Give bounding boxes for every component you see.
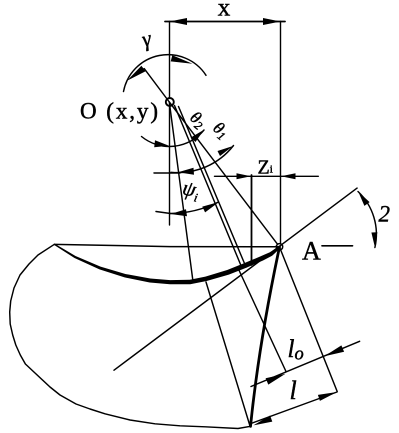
z_i dimension line	[215, 175, 319, 177]
psi tick	[156, 212, 171, 214]
line O to A	[169, 102, 279, 247]
angle 2 arrow bottom	[371, 232, 377, 247]
soil surface horizontal line through A (left part)	[54, 244, 280, 246]
svg-text:l: l	[290, 376, 297, 405]
blade outline	[10, 244, 251, 428]
l arrow right	[318, 392, 337, 401]
gamma radial line	[144, 69, 169, 102]
z_i arrow right (outside)	[281, 173, 296, 179]
arrow x right	[263, 18, 281, 25]
theta1 tick	[154, 172, 180, 174]
l0 arrow right	[324, 345, 344, 356]
dimension x line	[165, 21, 285, 23]
extension line A down-right (for l and l0)	[280, 247, 338, 392]
soil surface horizontal line (right of A label)	[322, 245, 353, 247]
theta2 arrow right end	[191, 130, 204, 142]
svg-text:A: A	[302, 237, 321, 266]
theta2 arrow at vertical	[154, 140, 169, 147]
extension line left (vertical through O)	[169, 22, 171, 226]
holder extension line to l0 dimension	[238, 267, 287, 372]
long diagonal line through A	[114, 188, 357, 370]
holder line left (double pair)	[175, 106, 243, 269]
l arrow left	[254, 416, 273, 426]
thick blade chord A-T	[251, 247, 280, 426]
psi arc	[171, 202, 219, 214]
theta1 arc	[171, 146, 234, 173]
theta1 arrow right	[218, 146, 234, 156]
l dimension line	[251, 392, 337, 424]
theta1 arrow left	[178, 168, 194, 175]
point A circle	[276, 244, 282, 250]
svg-text:O (x,y): O (x,y)	[80, 99, 158, 124]
extension line right (vertical through A)	[280, 22, 282, 244]
theta2 arc	[142, 130, 205, 146]
z_i arrow left (outside)	[237, 173, 251, 179]
psi arrow left	[171, 209, 188, 216]
l0 arrow left	[266, 374, 286, 385]
svg-text:2: 2	[379, 202, 391, 227]
angle 2 arc at A	[358, 192, 376, 248]
point O circle	[166, 98, 174, 106]
arrow x left	[170, 18, 188, 25]
l0 dimension line	[251, 341, 360, 386]
z_i extension vertical	[251, 175, 253, 265]
angle 2 arrow top	[358, 192, 369, 206]
holder line right (double pair)	[179, 107, 247, 268]
svg-text:x: x	[218, 0, 231, 22]
gamma arc	[124, 55, 207, 92]
psi arrow right	[202, 202, 219, 212]
thick blade arc (tapered band)	[54, 244, 280, 285]
fan line F1	[169, 102, 193, 282]
gamma arrow ccw (left)	[127, 66, 146, 81]
blade mid line below arc to tip	[206, 282, 250, 426]
gamma arrow cw (top right)	[171, 55, 193, 64]
